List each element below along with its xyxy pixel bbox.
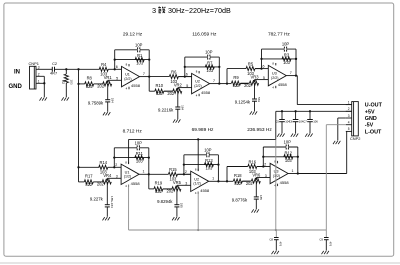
svg-text:VR2: VR2 <box>174 83 183 88</box>
svg-text:R1: R1 <box>137 53 143 58</box>
svg-text:185: 185 <box>180 203 184 208</box>
svg-text:822: 822 <box>156 91 164 96</box>
svg-text:6: 6 <box>186 72 188 76</box>
svg-text:VR1: VR1 <box>104 75 113 80</box>
svg-text:103: 103 <box>70 79 74 84</box>
svg-text:9.227k: 9.227k <box>90 196 104 201</box>
svg-text:103: 103 <box>136 159 144 164</box>
svg-text:4558: 4558 <box>200 188 210 193</box>
svg-text:4558: 4558 <box>131 181 141 186</box>
svg-text:184: 184 <box>180 105 184 110</box>
svg-text:C6: C6 <box>289 120 293 124</box>
svg-text:822: 822 <box>85 182 93 187</box>
svg-text:103: 103 <box>285 158 293 163</box>
svg-text:R4: R4 <box>101 62 107 67</box>
svg-text:R12: R12 <box>285 150 293 155</box>
svg-text:VR3: VR3 <box>251 75 260 80</box>
svg-text:R16: R16 <box>249 159 257 164</box>
svg-text:10P: 10P <box>284 140 292 145</box>
svg-text:4558: 4558 <box>201 90 211 95</box>
svg-text:R15: R15 <box>169 167 177 172</box>
svg-text:822: 822 <box>233 83 241 88</box>
svg-text:(1/2): (1/2) <box>124 175 131 179</box>
svg-text:GND: GND <box>9 84 23 90</box>
svg-text:103: 103 <box>283 60 291 65</box>
svg-text:7: 7 <box>213 79 215 83</box>
svg-text:782.77 Hz: 782.77 Hz <box>268 31 290 37</box>
svg-text:U2: U2 <box>194 177 199 181</box>
svg-text:9.8776k: 9.8776k <box>232 198 248 203</box>
svg-text:U1: U1 <box>125 73 130 77</box>
svg-text:R7: R7 <box>207 60 213 65</box>
svg-text:7: 7 <box>143 72 145 76</box>
svg-text:10P: 10P <box>135 140 143 145</box>
svg-text:202: 202 <box>167 91 175 96</box>
svg-text:R19: R19 <box>155 181 163 186</box>
svg-text:R11: R11 <box>136 151 144 156</box>
svg-text:6: 6 <box>116 65 118 69</box>
svg-text:1: 1 <box>212 177 214 181</box>
svg-text:822: 822 <box>86 84 94 89</box>
svg-text:8.712 Hz: 8.712 Hz <box>123 128 143 134</box>
svg-text:476: 476 <box>328 242 332 247</box>
svg-text:R6: R6 <box>171 70 177 75</box>
svg-text:R5: R5 <box>248 62 254 67</box>
svg-text:30Hz~220Hz=70dB: 30Hz~220Hz=70dB <box>168 6 231 15</box>
svg-text:(2/2): (2/2) <box>194 84 201 88</box>
svg-text:4R7: 4R7 <box>50 70 57 75</box>
svg-text:GND: GND <box>365 116 377 122</box>
svg-text:4: 4 <box>348 121 350 125</box>
svg-text:822: 822 <box>155 189 163 194</box>
svg-text:69.989 Hz: 69.989 Hz <box>192 127 214 133</box>
svg-text:R8: R8 <box>87 76 93 81</box>
svg-text:2: 2 <box>38 72 40 76</box>
svg-text:7: 7 <box>290 71 292 75</box>
svg-text:R17: R17 <box>85 174 93 179</box>
svg-text:9.8294k: 9.8294k <box>157 199 173 204</box>
svg-text:10P: 10P <box>205 50 213 55</box>
svg-text:VR6: VR6 <box>252 172 261 177</box>
svg-text:C8: C8 <box>269 237 273 241</box>
svg-text:U1: U1 <box>125 170 130 174</box>
svg-text:R14: R14 <box>100 160 108 165</box>
svg-text:VR5: VR5 <box>173 180 182 185</box>
svg-text:IN: IN <box>14 70 20 76</box>
svg-text:185: 185 <box>259 195 263 200</box>
svg-text:1: 1 <box>143 170 145 174</box>
svg-text:184: 184 <box>110 98 114 103</box>
svg-text:103: 103 <box>205 166 213 171</box>
svg-text:2: 2 <box>185 170 187 174</box>
svg-text:U3: U3 <box>272 72 277 76</box>
svg-text:-5V: -5V <box>365 123 374 129</box>
svg-text:822: 822 <box>234 181 242 186</box>
svg-text:U-OUT: U-OUT <box>365 103 383 109</box>
svg-text:10P: 10P <box>282 42 290 47</box>
svg-text:103: 103 <box>136 61 144 66</box>
svg-text:3: 3 <box>152 6 156 15</box>
svg-text:236.953 Hz: 236.953 Hz <box>247 127 272 133</box>
svg-text:R10: R10 <box>156 83 164 88</box>
svg-text:R13: R13 <box>205 158 213 163</box>
svg-text:202: 202 <box>97 84 105 89</box>
svg-text:2: 2 <box>264 162 266 166</box>
svg-text:116.059 Hz: 116.059 Hz <box>192 31 217 37</box>
svg-text:+5V: +5V <box>365 109 375 115</box>
svg-text:R18: R18 <box>234 173 242 178</box>
svg-text:(1/2): (1/2) <box>273 174 280 178</box>
svg-text:(1/2): (1/2) <box>193 182 200 186</box>
svg-text:CNP2: CNP2 <box>350 136 360 141</box>
svg-text:9.7589k: 9.7589k <box>88 100 104 105</box>
svg-text:1: 1 <box>292 169 294 173</box>
svg-text:29.12 Hz: 29.12 Hz <box>123 31 143 37</box>
svg-text:4558: 4558 <box>280 180 290 185</box>
svg-text:202: 202 <box>97 182 105 187</box>
svg-text:103: 103 <box>206 68 214 73</box>
svg-text:202: 202 <box>166 189 174 194</box>
svg-text:C9: C9 <box>319 237 323 241</box>
svg-text:C7: C7 <box>303 120 307 124</box>
svg-text:5: 5 <box>348 127 350 131</box>
svg-text:2: 2 <box>348 107 350 111</box>
svg-text:1: 1 <box>348 100 350 104</box>
svg-text:(2/2): (2/2) <box>124 77 131 81</box>
svg-text:6: 6 <box>263 64 265 68</box>
svg-text:10P: 10P <box>204 147 212 152</box>
svg-text:VR4: VR4 <box>103 173 112 178</box>
svg-text:R9: R9 <box>233 75 239 80</box>
svg-text:L-OUT: L-OUT <box>365 129 382 135</box>
svg-text:C2: C2 <box>52 61 57 66</box>
svg-text:10P: 10P <box>135 42 143 47</box>
svg-text:(2/2): (2/2) <box>271 76 278 80</box>
svg-text:3: 3 <box>38 65 40 69</box>
svg-text:R3: R3 <box>284 52 290 57</box>
svg-text:9.2216k: 9.2216k <box>158 108 174 113</box>
svg-text:185+184: 185+184 <box>110 196 114 208</box>
svg-text:476: 476 <box>278 242 282 247</box>
svg-text:4558: 4558 <box>131 83 141 88</box>
svg-text:3: 3 <box>348 114 350 118</box>
svg-text:1: 1 <box>38 79 40 83</box>
svg-text:106: 106 <box>313 120 318 124</box>
svg-text:2: 2 <box>115 163 117 167</box>
svg-text:4558: 4558 <box>278 82 288 87</box>
svg-text:R2: R2 <box>61 80 65 84</box>
svg-text:U2: U2 <box>195 80 200 84</box>
svg-text:563: 563 <box>257 97 261 102</box>
svg-text:9.1254k: 9.1254k <box>235 100 251 105</box>
